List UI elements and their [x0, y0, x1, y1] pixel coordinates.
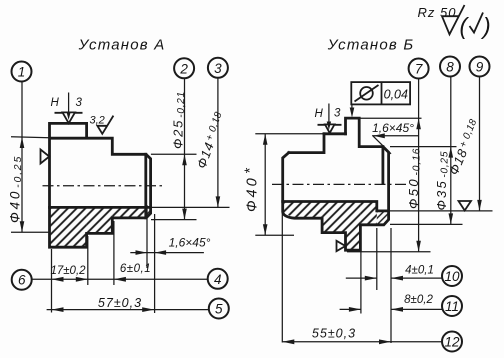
svg-text:3,2: 3,2 — [90, 115, 105, 127]
callout circle 5 — [209, 299, 229, 319]
svg-text:9: 9 — [476, 60, 484, 75]
callout circle 8 — [440, 57, 460, 77]
part A centerline — [43, 185, 164, 187]
roughness 3,2 mark on part A — [90, 115, 114, 134]
runout tolerance frame 0,04 — [350, 82, 410, 118]
datum triangle on flange left face B — [337, 241, 346, 251]
svg-text:3: 3 — [76, 97, 83, 109]
part A outline — [50, 123, 151, 247]
part B f40 surface line with extension — [255, 133, 324, 135]
callout circle 1 — [12, 62, 32, 82]
svg-text:Установ Б: Установ Б — [327, 37, 415, 54]
svg-text:3: 3 — [334, 108, 341, 120]
part A chamfer base circle line — [144, 154, 147, 218]
chamfer dim 1,6x45 part A — [130, 205, 210, 268]
dim Ф40-0,25 leader from circle 1 — [8, 82, 50, 233]
svg-text:8: 8 — [446, 60, 454, 75]
hatch B left step — [283, 202, 322, 219]
part A bore line — [50, 206, 151, 209]
Rz50 general roughness note — [418, 5, 491, 39]
dim Ф50-0,16 leader from circle 7 — [347, 79, 431, 252]
setting datum triangle on Ф18 line — [459, 201, 472, 211]
svg-text:7: 7 — [415, 62, 423, 77]
part B centerline — [272, 183, 407, 185]
svg-text:17±0,2: 17±0,2 — [50, 265, 86, 277]
hatch section A end ring — [146, 207, 151, 218]
callout circle 9 — [470, 57, 490, 77]
mark H 3 on part B — [315, 104, 342, 134]
hatch section A middle step — [87, 207, 113, 233]
callout circle 2 — [174, 58, 194, 78]
dim Ф14+0,18 leader from circle 3 — [151, 78, 230, 208]
svg-text:12: 12 — [444, 335, 460, 350]
svg-text:11: 11 — [445, 299, 459, 314]
hatch section A small step — [112, 207, 146, 218]
callout circle 11 — [442, 296, 462, 316]
hatch B flange — [346, 202, 361, 251]
svg-text:3: 3 — [214, 61, 222, 76]
svg-text:0,04: 0,04 — [384, 87, 408, 101]
svg-text:Н: Н — [51, 97, 60, 109]
dim 57 with circle 5 — [47, 296, 209, 312]
dim Ф40* — [243, 134, 295, 235]
svg-text:10: 10 — [444, 269, 460, 284]
svg-text:1: 1 — [18, 65, 26, 80]
callout circle 10 — [442, 266, 462, 286]
svg-text:Rz 50: Rz 50 — [418, 5, 457, 20]
datum triangle on left face of A — [41, 150, 50, 164]
part B outline — [283, 118, 389, 250]
dim 8 with circle 11 — [340, 294, 442, 312]
svg-text:6: 6 — [18, 273, 26, 288]
svg-text:8±0,2: 8±0,2 — [404, 294, 433, 306]
callout circle 6 — [12, 270, 32, 290]
hatch B right step — [360, 202, 376, 225]
svg-text:1,6×45°: 1,6×45° — [169, 236, 211, 250]
dim Ф18+0,18 leader from circle 9 — [390, 77, 493, 211]
mark H 3 on part A — [51, 93, 83, 124]
hatch B f40 step — [322, 202, 345, 233]
dim 4 with circle 10 — [346, 228, 442, 343]
svg-text:55±0,3: 55±0,3 — [312, 327, 356, 341]
svg-text:2: 2 — [179, 61, 188, 76]
part B bore lines — [283, 202, 389, 211]
svg-text:57±0,3: 57±0,3 — [98, 296, 142, 310]
dim line 17 / 6 with circles 6 and 4 — [32, 214, 207, 313]
part B chamfer base circle line — [381, 147, 384, 184]
svg-text:4±0,1: 4±0,1 — [405, 265, 434, 277]
callout circle 3 — [208, 58, 228, 78]
chamfer dim 1,6x45 part B — [372, 121, 419, 154]
hatch section A left flange — [50, 207, 87, 247]
dim Ф35-0,25 leader from circle 8 — [390, 77, 463, 225]
svg-text:Ф40*: Ф40* — [243, 165, 261, 212]
dim Ф25-0,21 leader from circle 2 — [151, 79, 197, 220]
callout circle 7 — [409, 59, 429, 79]
svg-text:4: 4 — [214, 272, 222, 287]
svg-text:1,6×45°: 1,6×45° — [372, 121, 414, 135]
dim 55 with circle 12 — [282, 213, 442, 344]
hatch B end ring — [377, 211, 389, 225]
svg-text:5: 5 — [215, 302, 223, 317]
svg-text:Н: Н — [315, 108, 324, 120]
callout circle 12 — [442, 332, 462, 352]
svg-text:Установ А: Установ А — [78, 37, 166, 54]
callout circle 4 — [208, 269, 228, 289]
